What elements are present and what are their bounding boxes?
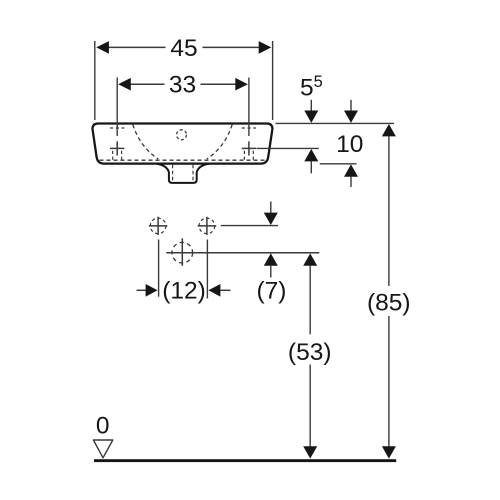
reference line C basin bottom level (320, 163, 357, 165)
drain centre dashed circle (172, 242, 193, 263)
bolt extension line left (158, 240, 160, 297)
dimension 10 lower arrow tail (350, 176, 352, 187)
svg-text:(7): (7) (257, 277, 287, 304)
datum triangle (93, 440, 112, 458)
dimension 45 arrow right (259, 41, 272, 54)
right fixing bolt cross (198, 217, 217, 235)
svg-text:10: 10 (336, 131, 363, 158)
reference line B tap hole level (257, 147, 319, 149)
dimension 10 upper arrow (344, 111, 358, 123)
dimension 12 right arrow (208, 284, 220, 297)
svg-text:0: 0 (96, 413, 110, 440)
svg-text:(12): (12) (162, 277, 206, 304)
dimension 85 line upper segment (388, 136, 390, 286)
dimension 12 right tail (220, 289, 230, 291)
reference line A basin top (276, 122, 395, 124)
left fixing bolt cross (149, 217, 168, 235)
dimension 53 lower arrow (303, 446, 317, 458)
dimension 12 left arrow (146, 284, 158, 297)
svg-text:45: 45 (170, 35, 197, 62)
dimension 53 line lower segment (309, 365, 311, 448)
inner bowl dashed right slant (207, 125, 232, 160)
drain dashed pipe lines (173, 165, 193, 181)
dimension 33 arrow right (235, 78, 248, 91)
right tap hole cross (242, 141, 256, 155)
dimension 5.5 lower arrow tail (310, 161, 312, 173)
dimension 7 upper arrow tail (270, 202, 272, 214)
dimension 45 extension line left (94, 41, 96, 120)
dimension 45 arrow left (96, 41, 109, 54)
inner bowl dashed left slant (133, 125, 158, 160)
dimension 7 lower arrow tail (270, 265, 272, 277)
dimension 7 lower arrow (264, 253, 278, 265)
drain centre reference line (166, 252, 319, 254)
overflow dashed circle (177, 130, 187, 140)
right fixing bolt dashed circle (199, 218, 215, 234)
svg-text:33: 33 (169, 72, 196, 99)
left tap hole cross (110, 141, 124, 155)
dimension 5.5 lower arrow (304, 149, 318, 161)
drain centre vertical line (181, 238, 183, 265)
bolt level reference line (221, 225, 278, 227)
dimension 5.5 upper arrow (304, 111, 318, 123)
dimension 85 lower arrow (382, 446, 396, 458)
dimension 53 upper arrow (303, 253, 317, 265)
svg-text:(53): (53) (288, 339, 332, 366)
dimension 5.5 upper arrow tail (310, 100, 312, 111)
svg-text:(85): (85) (367, 289, 411, 316)
dimension 85 upper arrow (382, 124, 396, 136)
dimension 33 extension line left (116, 78, 118, 137)
dimension 85 line lower segment (388, 316, 390, 447)
dimension 53 line upper segment (309, 265, 311, 334)
right tap hole dashed detail (242, 128, 256, 160)
left fixing bolt dashed circle (150, 218, 166, 234)
dimension 10 lower arrow (344, 164, 358, 176)
bolt extension line right (206, 240, 208, 299)
dimension 45 line (109, 46, 259, 48)
svg-text:5: 5 (314, 73, 323, 91)
dimension 33 extension line right (248, 78, 250, 137)
dimension 45 extension line right (272, 41, 274, 120)
svg-text:5: 5 (300, 75, 314, 102)
dimension 10 upper arrow tail (350, 100, 352, 111)
drain outlet outline (157, 164, 209, 183)
dimension 12 left tail (137, 289, 147, 291)
washbasin outer outline (93, 124, 273, 164)
floor line (94, 459, 396, 462)
left tap hole dashed detail (110, 128, 124, 160)
dimension 33 line (131, 83, 236, 85)
dimension 33 arrow left (118, 78, 131, 91)
inner bowl dashed bottom line (100, 159, 266, 161)
dimension 7 upper arrow (264, 213, 278, 225)
